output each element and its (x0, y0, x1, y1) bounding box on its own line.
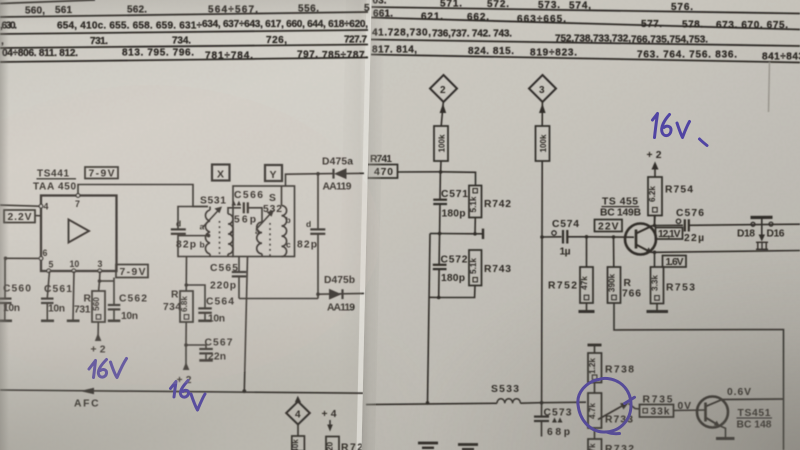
capacitor C572 (438, 234, 441, 265)
resistor R734 6.8k (180, 291, 193, 322)
parts table left page (0, 0, 368, 62)
capacitor (partial, bottom) (458, 443, 478, 446)
supply +2 arrow R734 (185, 345, 187, 370)
AFC rail (0, 390, 364, 393)
voltage box 2.2V (4, 210, 35, 223)
handwritten ellipse around R733 (578, 378, 631, 432)
crease line below table (769, 62, 770, 112)
resistor 100k (right) (536, 126, 550, 161)
capacitor C565 220p (238, 257, 240, 272)
ground R752 (586, 303, 588, 311)
warm tint left page (0, 85, 380, 385)
connector D18 D16 (751, 216, 773, 219)
capacitor C564 10n (186, 285, 205, 308)
op-amp triangle (69, 220, 90, 243)
ground R753 (656, 304, 658, 312)
wire R743 bottom (439, 286, 475, 298)
supply +2 arrow R731 (97, 322, 99, 341)
node diamond 2 (430, 75, 457, 102)
wire 100k(right) down (541, 161, 544, 403)
wire Y to diode (286, 174, 333, 186)
wire (541, 102, 543, 126)
node diamond 3 (529, 75, 556, 102)
resistor R732 (partial) (588, 439, 602, 450)
voltage box 1.6V (663, 256, 687, 268)
node Y (265, 165, 282, 181)
box around S532 (233, 186, 295, 257)
wire R766 bottom rail (614, 303, 784, 450)
handwritten 16v (top right) (653, 114, 658, 138)
trimmer arrow (203, 209, 220, 228)
parts table right page (371, 7, 800, 63)
handwritten 16V (crossing AFC line) (171, 382, 177, 398)
wire loop with capacitor d 82p (178, 207, 208, 229)
resistor 40k (partial) (292, 436, 305, 450)
capacitor C561 10n (47, 271, 49, 298)
wire pin3 junction (99, 271, 102, 281)
wire 2.2V to IC (35, 215, 42, 217)
emitter rail (655, 251, 800, 253)
wire S531 bottom to R734 (185, 257, 187, 292)
photo vignettes (0, 240, 420, 450)
wire (441, 102, 443, 126)
wire 100k down (440, 161, 442, 172)
resistor R752 47k (580, 267, 593, 303)
left image edge shading (0, 0, 9, 450)
resistor R766 390k (608, 267, 621, 303)
transistor Q TS451 BC148 (697, 397, 728, 428)
inductor S531 winding c (228, 214, 233, 254)
capacitor C573 68p (541, 403, 543, 416)
trimmer arrow (256, 212, 272, 230)
capacitor C571 (439, 172, 441, 199)
voltage box 7-9V top (85, 167, 118, 179)
wire pin6 (6, 257, 39, 259)
left page paper (0, 0, 372, 450)
wire S531 bottom to AFC (244, 257, 247, 392)
wire junction to R742 (441, 172, 476, 186)
shadow cast by left page edge onto right page (362, 0, 386, 450)
resistor R753 3.3k (651, 267, 664, 304)
resistor R720 (partial) (326, 437, 339, 450)
wire to 7-9V box (113, 278, 115, 281)
resistor R754 6.2k (648, 177, 662, 216)
potentiometer R733 4.7k (588, 393, 602, 428)
wire pin10 terminal (73, 271, 74, 320)
wire pin4 (0, 205, 39, 206)
capacitor C567 22n (185, 322, 187, 345)
inductor S531 winding a-b (205, 210, 210, 254)
wire R742 bottom (474, 218, 476, 234)
voltage box 12,1V (656, 228, 683, 240)
node dot (439, 170, 443, 174)
node junction mid (438, 232, 442, 236)
capacitor C560 10n (4, 258, 6, 298)
left page curled edge highlight (357, 0, 372, 450)
inductor S532 winding b-c (282, 206, 287, 257)
voltage box 7-9V bottom (116, 265, 148, 278)
capacitor d 82p (right) (317, 174, 319, 229)
wire S531 tap (178, 235, 209, 237)
resistor R742 5.1k (469, 186, 482, 218)
terminal bar (475, 233, 483, 235)
wire pin7 supply rail (78, 185, 208, 207)
resistor R731 560 (98, 281, 101, 291)
node X (212, 165, 230, 181)
capacitor C562 10n (113, 281, 115, 304)
ground TS451 (716, 437, 735, 440)
resistor R738 1.2k (588, 344, 602, 347)
core dots (219, 221, 221, 255)
wire 470 to junction (398, 171, 441, 173)
resistor R743 5.1k (469, 250, 482, 286)
inductor S532 winding a (257, 222, 262, 254)
handwritten 16V (left, above AFC) (89, 361, 96, 378)
capacitor (partial, bottom) (418, 442, 438, 445)
node diamond 4 (295, 396, 301, 403)
voltage box 22V (595, 220, 623, 232)
pin ticks (39, 194, 101, 273)
wire to base (587, 236, 635, 238)
resistor 100k (left) (434, 126, 448, 161)
core dots (269, 223, 271, 256)
wire bracket left (430, 233, 440, 235)
